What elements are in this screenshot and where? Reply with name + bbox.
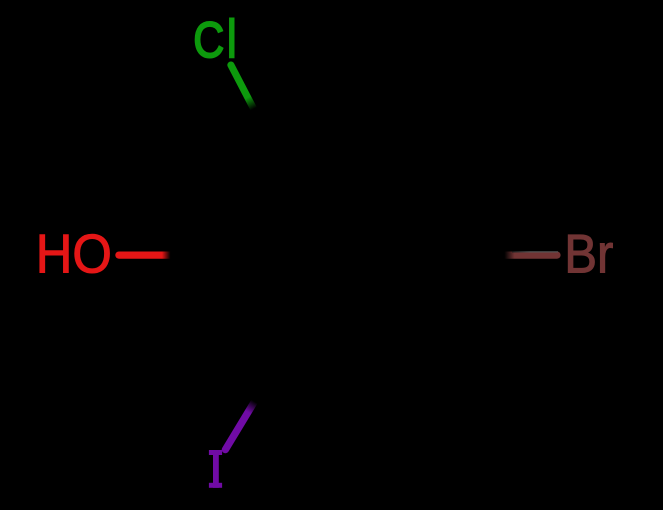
bond C2-Cl (green half) — [231, 65, 254, 109]
svg-text:C: C — [193, 12, 224, 68]
bond C4-Br (maroon half) — [505, 252, 558, 259]
svg-text:l: l — [226, 9, 237, 70]
svg-text:Br: Br — [564, 224, 613, 285]
bond C1-O (red half) — [119, 252, 171, 259]
bond C4-Br top highlight edge — [512, 251, 558, 253]
svg-text:HO: HO — [36, 224, 112, 285]
atom label I (drawn with serif crossbars) — [209, 450, 222, 488]
bond C6-I (purple half) — [225, 402, 254, 450]
